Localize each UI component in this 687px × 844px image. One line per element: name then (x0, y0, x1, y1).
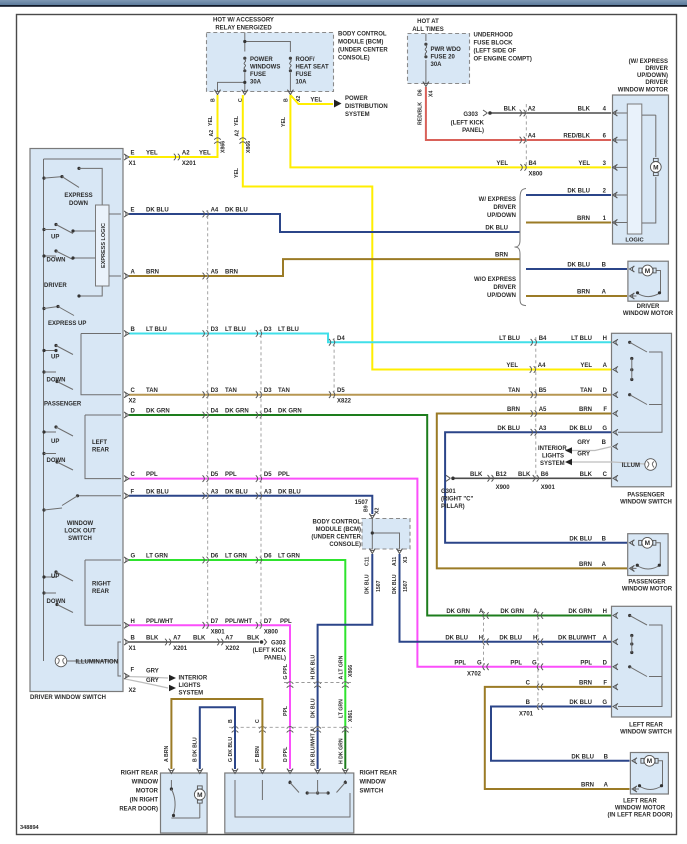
svg-text:UP/DOWN: UP/DOWN (487, 213, 516, 219)
connector A3 DK BLU 1 (203, 489, 219, 499)
svg-text:DRIVER: DRIVER (645, 66, 668, 72)
svg-text:UP/DOWN: UP/DOWN (487, 293, 516, 299)
svg-text:UP: UP (51, 355, 59, 361)
label RIGHT REAR WINDOW SWITCH (360, 771, 398, 795)
svg-text:B4: B4 (539, 336, 547, 342)
svg-text:EXPRESS LOGIC: EXPRESS LOGIC (101, 223, 107, 268)
svg-text:B4: B4 (529, 161, 537, 167)
svg-text:LT BLU: LT BLU (571, 336, 592, 342)
svg-text:UP/DOWN): UP/DOWN) (637, 73, 668, 79)
svg-text:REAR: REAR (92, 589, 110, 595)
label EXPRESS DOWN (64, 193, 92, 207)
svg-text:EXPRESS: EXPRESS (64, 193, 92, 199)
svg-text:X1: X1 (129, 161, 137, 167)
connector A5 BRN right (531, 407, 547, 417)
svg-text:BRN: BRN (581, 783, 594, 789)
svg-text:A7: A7 (225, 636, 233, 642)
svg-text:(UNDER CENTER: (UNDER CENTER (338, 48, 388, 54)
svg-text:C: C (526, 680, 531, 686)
pin B9 arrow into BCM (369, 514, 375, 519)
svg-text:WINDOW: WINDOW (360, 780, 387, 786)
svg-text:DK GRN: DK GRN (568, 609, 592, 615)
svg-text:BRN: BRN (495, 253, 508, 259)
svg-text:BRN: BRN (577, 290, 590, 296)
svg-text:BLK: BLK (580, 472, 593, 478)
svg-text:G303: G303 (271, 641, 286, 647)
express up switch S4 (42, 286, 102, 316)
svg-text:OF ENGINE COMPT): OF ENGINE COMPT) (474, 57, 532, 63)
svg-text:X1: X1 (129, 646, 137, 652)
passenger switch contacts (618, 341, 662, 433)
svg-text:X866: X866 (246, 141, 252, 153)
left rear window switch box (612, 606, 672, 717)
connector row X866 (284, 665, 354, 688)
pin A arrow left rear motor (581, 783, 637, 793)
wire RED/BLK fuse to driver window motor pin 6 (418, 87, 612, 140)
svg-text:BLK: BLK (146, 636, 159, 642)
connector B6 X901 BLK (533, 472, 556, 491)
label HOT AT ALL TIMES (412, 19, 444, 33)
svg-text:C11: C11 (365, 557, 371, 566)
svg-text:YEL: YEL (310, 98, 322, 104)
svg-text:WINDOW: WINDOW (132, 780, 159, 786)
passenger window switch box (612, 333, 672, 487)
commutator lever M5 (170, 787, 200, 818)
svg-text:X702: X702 (467, 671, 482, 677)
svg-text:BRN: BRN (146, 270, 159, 276)
svg-text:LIGHTS: LIGHTS (542, 454, 564, 460)
svg-text:A4: A4 (211, 208, 219, 214)
pin E X1 arrow YEL (124, 151, 211, 168)
passenger switch contacts S5 (42, 334, 121, 395)
svg-text:PPL: PPL (283, 705, 289, 716)
svg-text:F: F (131, 668, 135, 674)
pin A arrow right rear switch (315, 769, 321, 774)
svg-text:INTERIOR: INTERIOR (538, 446, 567, 452)
label BODY CONTROL MODULE (BCM) top (338, 32, 388, 62)
svg-text:X2: X2 (129, 688, 137, 694)
wire YEL fuse C down to passenger switch pin A (234, 95, 611, 370)
pin 2 driver motor (613, 192, 628, 198)
driver window motor w/ express box (613, 95, 669, 244)
svg-text:DRIVER: DRIVER (493, 205, 516, 211)
pin H arrow passenger (613, 339, 618, 345)
connector D5 X822 TAN 3 (329, 388, 352, 405)
svg-text:X3: X3 (403, 557, 409, 563)
label PWR WDO FUSE 20 30A (431, 47, 462, 68)
wire LT GRN driver switch pin G down to X861 (124, 554, 345, 728)
svg-text:LEFT: LEFT (92, 440, 107, 446)
svg-text:TAN: TAN (580, 388, 592, 394)
svg-text:C: C (131, 388, 136, 394)
svg-text:LT BLU: LT BLU (499, 336, 520, 342)
connector D3 TAN 2 (256, 388, 272, 398)
connector D3 LT BLU 1 (203, 327, 219, 337)
pin C fuse box exit 2 (238, 90, 248, 102)
pin F arrow right rear switch (259, 769, 265, 774)
svg-text:POWER: POWER (250, 57, 273, 63)
svg-text:WINDOWS: WINDOWS (250, 65, 280, 71)
svg-text:(LEFT KICK: (LEFT KICK (253, 648, 287, 654)
svg-text:DRIVER: DRIVER (637, 304, 660, 310)
wire LT BLU driver switch pin B to passenger switch pin H (124, 327, 611, 342)
connector H DK BLU left rear 1 (445, 635, 488, 645)
body control module box center (362, 519, 410, 550)
connector A3 DK BLU right (531, 426, 547, 436)
svg-text:PPL: PPL (510, 660, 522, 666)
connector D3 LT BLU 2 (256, 327, 272, 337)
svg-text:A3: A3 (539, 426, 547, 432)
label DRIVER WINDOW MOTOR small (623, 304, 674, 317)
svg-text:D3: D3 (264, 388, 272, 394)
svg-text:DK BLU: DK BLU (225, 489, 248, 495)
svg-text:D PPL: D PPL (283, 746, 289, 762)
label POWER WINDOWS FUSE 30A (250, 57, 280, 86)
label W/O EXPRESS DRIVER UP/DOWN (474, 277, 517, 299)
dashed connector column X801 (207, 210, 209, 629)
pin B fuse box exit 3 (283, 90, 302, 102)
svg-text:LOCK OUT: LOCK OUT (64, 529, 96, 535)
svg-text:B: B (131, 327, 136, 333)
svg-text:B12: B12 (496, 472, 508, 478)
svg-text:HEAT SEAT: HEAT SEAT (296, 65, 329, 71)
svg-text:PPL/WHT: PPL/WHT (225, 619, 252, 625)
svg-text:G PPL: G PPL (283, 663, 289, 679)
svg-text:PASSENGER: PASSENGER (628, 580, 666, 586)
svg-text:BLK: BLK (578, 107, 591, 113)
connector A2 X201 on YEL row (174, 151, 197, 168)
connector B4 X800 on YEL motor row (496, 161, 606, 178)
connector D5 PPL 2 (256, 472, 272, 482)
svg-text:X861: X861 (348, 710, 354, 722)
svg-text:DK BLU/WHT A: DK BLU/WHT A (311, 728, 317, 766)
svg-text:(LEFT KICK: (LEFT KICK (451, 121, 485, 127)
svg-text:G: G (602, 426, 607, 432)
wire DK GRN driver switch pin D to left rear switch pin H (124, 409, 611, 616)
connector D3 TAN 1 (203, 388, 219, 398)
wire DK BLU right rear switch pin G loop to motor pin B (193, 707, 235, 769)
svg-text:SWITCH: SWITCH (360, 789, 384, 795)
commutator arc M2 (636, 291, 661, 296)
svg-text:BRN: BRN (579, 407, 592, 413)
svg-text:DK GRN: DK GRN (500, 609, 524, 615)
label INTERIOR LIGHTS SYSTEM (driver) (179, 676, 208, 697)
svg-text:BRN: BRN (225, 270, 238, 276)
svg-text:CONSOLE): CONSOLE) (338, 56, 370, 62)
pin G arrow passenger (613, 429, 618, 435)
connector A2 on BLK motor row (520, 107, 536, 117)
svg-text:D6: D6 (264, 554, 272, 560)
svg-text:TAN: TAN (146, 388, 158, 394)
svg-text:MODULE (BCM): MODULE (BCM) (338, 40, 383, 46)
svg-text:X801: X801 (211, 629, 226, 635)
svg-text:PILLAR): PILLAR) (441, 504, 465, 510)
pin G arrow right rear switch (232, 769, 238, 774)
svg-text:(IN LEFT REAR DOOR): (IN LEFT REAR DOOR) (608, 813, 673, 819)
browser header bar (0, 0, 687, 5)
svg-text:YEL: YEL (506, 363, 518, 369)
svg-text:UP: UP (51, 439, 59, 445)
wire logic to pin E (109, 213, 121, 215)
svg-text:H: H (131, 619, 135, 625)
driver window switch box (30, 149, 123, 692)
connector A DK GRN 4 (500, 609, 607, 619)
connector D6 LT GRN 1 (203, 554, 219, 564)
svg-text:G: G (602, 700, 607, 706)
svg-text:A7: A7 (173, 636, 181, 642)
svg-text:BLK: BLK (470, 472, 483, 478)
label INTERIOR LIGHTS SYSTEM (passenger) (538, 446, 567, 467)
svg-text:LT GRN: LT GRN (225, 554, 247, 560)
pin B arrow passenger motor (569, 536, 634, 546)
pin A arrow driver switch BRN (124, 273, 129, 279)
connector A7 X201 BLK 1 (165, 636, 188, 653)
pin A arrow left rear switch (613, 639, 618, 645)
svg-text:1507: 1507 (403, 580, 409, 592)
fuse F2 ROOF/HEAT SEAT (289, 57, 292, 73)
svg-text:G: G (532, 660, 537, 666)
svg-text:X822: X822 (337, 399, 352, 405)
label W/ EXPRESS DRIVER UP/DOWN (479, 197, 517, 219)
svg-text:BRN: BRN (579, 562, 592, 568)
svg-text:(LEFT SIDE OF: (LEFT SIDE OF (474, 49, 517, 55)
svg-text:F: F (603, 680, 607, 686)
svg-text:DOWN: DOWN (47, 599, 66, 605)
pin B arrow right rear motor (197, 769, 203, 774)
motor M3 symbol (630, 537, 661, 568)
svg-text:DRIVER: DRIVER (645, 80, 668, 86)
svg-text:PPL: PPL (278, 472, 290, 478)
svg-text:DK BLU: DK BLU (146, 208, 169, 214)
svg-text:DK BLU/WHT: DK BLU/WHT (558, 635, 596, 641)
svg-text:REAR DOOR): REAR DOOR) (119, 807, 158, 813)
right rear window switch box (225, 773, 354, 833)
svg-text:DK BLU: DK BLU (497, 426, 520, 432)
fuse F3 PWR WDO 20 (424, 43, 427, 59)
svg-text:MOTOR: MOTOR (136, 789, 159, 795)
svg-text:B9: B9 (363, 505, 369, 512)
svg-text:DK BLU: DK BLU (569, 426, 592, 432)
svg-text:A: A (602, 290, 607, 296)
svg-text:FUSE 20: FUSE 20 (431, 55, 456, 61)
wire BRN brace to driver motor pin 1 (526, 216, 611, 223)
label LEFT REAR (92, 440, 110, 454)
svg-text:D5: D5 (264, 472, 272, 478)
svg-text:D6: D6 (418, 89, 424, 96)
ground G303 left kick panel (driver) (253, 639, 287, 662)
svg-text:INTERIOR: INTERIOR (179, 676, 208, 682)
svg-text:LT GRN: LT GRN (146, 554, 168, 560)
svg-text:X800: X800 (529, 172, 544, 178)
label HOT W/ ACCESSORY RELAY ENERGIZED (213, 18, 274, 32)
svg-text:D: D (131, 409, 136, 415)
svg-text:X2: X2 (129, 399, 137, 405)
svg-text:A: A (604, 783, 609, 789)
svg-text:YEL: YEL (580, 363, 592, 369)
svg-text:DK BLU: DK BLU (392, 574, 398, 594)
svg-text:DK BLU: DK BLU (567, 263, 590, 269)
left rear window motor box (630, 753, 668, 795)
motor M2 symbol (630, 265, 661, 296)
svg-text:X866: X866 (348, 665, 354, 677)
svg-text:LT BLU: LT BLU (225, 327, 246, 333)
svg-text:FUSE: FUSE (250, 72, 266, 78)
svg-text:X4: X4 (429, 91, 435, 97)
svg-text:E: E (131, 151, 135, 157)
svg-text:ILLUM: ILLUM (622, 463, 640, 469)
svg-text:H: H (479, 635, 483, 641)
svg-text:LEFT REAR: LEFT REAR (629, 723, 663, 729)
svg-text:YEL: YEL (496, 161, 508, 167)
commutator arc M4 (638, 784, 663, 789)
svg-text:BODY CONTROL: BODY CONTROL (338, 32, 387, 38)
svg-text:A: A (131, 270, 136, 276)
svg-text:(IN RIGHT: (IN RIGHT (130, 798, 159, 804)
svg-text:30A: 30A (250, 80, 262, 86)
svg-text:D4: D4 (337, 336, 345, 342)
pin H arrow left rear switch (613, 613, 618, 619)
svg-text:RIGHT: RIGHT (92, 582, 111, 588)
svg-text:BODY CONTROL: BODY CONTROL (312, 520, 361, 526)
svg-text:A3: A3 (211, 489, 219, 495)
express logic module (96, 205, 110, 286)
connector G X702 PPL 3 (454, 660, 488, 677)
svg-text:D5: D5 (337, 388, 345, 394)
connector D7 X801 PPL/WHT 1 (203, 619, 226, 636)
svg-text:PANEL): PANEL) (462, 128, 484, 134)
motor M1 symbol (642, 115, 661, 223)
svg-text:B: B (602, 263, 607, 269)
svg-text:PPL: PPL (225, 472, 237, 478)
wire internal fuse feed (218, 33, 291, 92)
passenger window motor box (628, 534, 668, 576)
svg-text:D4: D4 (211, 409, 219, 415)
svg-text:YEL: YEL (234, 167, 240, 178)
svg-text:SYSTEM: SYSTEM (179, 691, 204, 697)
svg-text:BLK: BLK (504, 107, 517, 113)
svg-text:H DK BLU: H DK BLU (311, 654, 317, 679)
motor M5 symbol (171, 780, 205, 818)
svg-text:DK BLU: DK BLU (278, 489, 301, 495)
svg-text:(RIGHT "C": (RIGHT "C" (441, 497, 474, 503)
svg-text:DK BLU: DK BLU (225, 208, 248, 214)
driver down contact S3 (42, 249, 95, 259)
svg-text:C: C (255, 719, 261, 723)
svg-text:B DK BLU: B DK BLU (193, 737, 199, 762)
svg-text:UNDERHOOD: UNDERHOOD (474, 33, 514, 39)
dashed connector column X800 top (525, 104, 527, 168)
svg-text:D3: D3 (211, 388, 219, 394)
svg-text:BRN: BRN (579, 680, 592, 686)
wire BRN driver switch to brace (129, 253, 520, 277)
svg-text:G303: G303 (463, 112, 478, 118)
connector D4 DK GRN 2 (256, 409, 272, 419)
pin D6 X4 fuse exit (418, 82, 435, 98)
svg-text:DOWN: DOWN (47, 458, 66, 464)
svg-text:F BRN: F BRN (255, 746, 261, 762)
svg-text:LT BLU: LT BLU (146, 327, 167, 333)
illumination lamp LP1 (55, 642, 121, 676)
connector A4 on DK BLU row (203, 208, 219, 218)
pin A arrow passenger (613, 367, 618, 373)
svg-text:X900: X900 (496, 485, 511, 491)
wire PPL/WHT driver switch pin H down to X861 (124, 619, 292, 728)
pin D arrow left rear switch (613, 664, 618, 670)
svg-text:TAN: TAN (278, 388, 290, 394)
pin A arrow passenger motor (579, 562, 635, 571)
svg-text:A2: A2 (528, 107, 536, 113)
svg-text:B: B (211, 98, 217, 102)
pin H arrow right rear switch (342, 769, 348, 774)
svg-text:F: F (131, 489, 135, 495)
wire DK BLU brace to driver motor pin 2 (526, 189, 611, 196)
svg-text:H: H (603, 609, 607, 615)
wire YEL fuse B down to driver switch pin E (129, 95, 218, 157)
svg-text:D3: D3 (211, 327, 219, 333)
pin 6 driver motor (613, 137, 628, 143)
wire DK GRN X861 to right rear switch pin H (344, 727, 346, 769)
svg-text:B: B (283, 98, 289, 102)
svg-text:DK BLU: DK BLU (569, 700, 592, 706)
svg-text:(W/ EXPRESS: (W/ EXPRESS (629, 59, 668, 65)
label ROOF/HEAT SEAT FUSE 10A (296, 57, 329, 86)
pin 3 driver motor (613, 164, 628, 170)
window lockout switch S7 (42, 494, 121, 511)
svg-text:A3: A3 (264, 489, 272, 495)
ground G303 left kick panel (top) (451, 110, 492, 134)
pin G arrow left rear switch (613, 704, 618, 710)
wire DK BLU passenger switch pin G to passenger motor pin B (445, 426, 627, 543)
connector A DK GRN 3 (446, 609, 488, 619)
svg-text:PPL/WHT: PPL/WHT (146, 619, 173, 625)
svg-text:H: H (603, 336, 607, 342)
svg-text:W/O EXPRESS: W/O EXPRESS (474, 277, 516, 283)
pin 1 driver motor (613, 220, 628, 226)
svg-text:A5: A5 (211, 270, 219, 276)
svg-text:UP: UP (51, 574, 59, 580)
motor M4 symbol (632, 755, 663, 789)
commutator arc M3 (636, 564, 661, 569)
svg-text:DK BLU: DK BLU (365, 574, 371, 594)
svg-text:WINDOW: WINDOW (67, 521, 94, 527)
connector D5 PPL 1 (203, 472, 219, 482)
svg-text:D: D (603, 660, 608, 666)
svg-text:D6: D6 (211, 554, 219, 560)
svg-text:B: B (228, 719, 234, 723)
svg-text:DOWN: DOWN (47, 378, 66, 384)
svg-text:DK GRN: DK GRN (146, 409, 170, 415)
svg-text:POWER: POWER (345, 96, 368, 102)
svg-text:A: A (603, 635, 608, 641)
svg-text:30A: 30A (431, 62, 443, 68)
pin C11 arrow out of BCM (365, 549, 376, 567)
svg-text:D7: D7 (211, 619, 219, 625)
wire GRY driver switch pin F to interior lights (124, 668, 168, 695)
right rear window motor box (161, 773, 208, 833)
svg-text:LIGHTS: LIGHTS (179, 683, 201, 689)
wire DK BLU driver switch pin F to BCM (124, 489, 372, 514)
svg-text:RIGHT REAR: RIGHT REAR (360, 771, 398, 777)
svg-text:UP: UP (51, 235, 59, 241)
svg-text:CONSOLE): CONSOLE) (329, 542, 361, 548)
wire BRN left rear switch pin F to left rear motor pin A (485, 680, 630, 789)
svg-text:G: G (477, 660, 482, 666)
connector G PPL 4 (510, 660, 607, 670)
svg-text:DK GRN: DK GRN (446, 609, 470, 615)
connector A4 on YEL passenger row (506, 363, 607, 373)
svg-text:A4: A4 (538, 363, 546, 369)
svg-text:WINDOW MOTOR: WINDOW MOTOR (623, 311, 674, 317)
